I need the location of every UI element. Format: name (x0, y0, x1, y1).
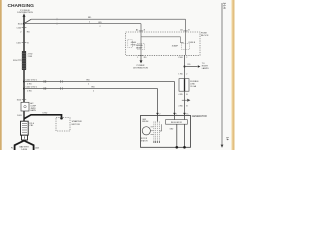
left binder edge (0, 0, 2, 150)
regulator left drop (161, 124, 163, 131)
starter motor (dashed) (56, 118, 70, 131)
svg-text:2: 2 (88, 84, 89, 86)
stub wires into regulator (174, 116, 176, 120)
wire C lower horizontal 1 (24, 81, 175, 83)
node branch to right (184, 66, 186, 68)
svg-text:C100: C100 (16, 42, 21, 44)
wire D lower horizontal 2 (24, 88, 158, 90)
splice tick S110 (22, 99, 26, 101)
fuse sub element left small (128, 40, 133, 48)
svg-text:14036: 14036 (21, 149, 28, 150)
svg-text:RD: RD (99, 22, 103, 24)
right binder edge (231, 0, 234, 150)
exit terminal left (139, 55, 143, 57)
svg-text:S100: S100 (18, 23, 24, 25)
svg-text:DISTRIBUTION: DISTRIBUTION (133, 68, 148, 70)
wire inside fuse block left (140, 32, 142, 55)
svg-text:2-1-0: 2-1-0 (222, 3, 226, 10)
svg-text:20 GA: 20 GA (190, 85, 196, 88)
svg-text:REGULATOR: REGULATOR (171, 121, 183, 124)
svg-text:2: 2 (93, 91, 94, 93)
wire battery cable branch to starter (24, 115, 62, 119)
node on wire D (23, 88, 25, 90)
svg-text:6 RD: 6 RD (43, 112, 48, 114)
arrow up to power distribution (23, 13, 26, 16)
svg-text:C200 1 RD 1: C200 1 RD 1 (26, 87, 38, 89)
svg-text:HARN: HARN (30, 109, 36, 112)
cable terminal (22, 135, 28, 140)
wire branch right arrow (185, 66, 198, 68)
wire fused feed down (184, 55, 186, 78)
regulator (166, 120, 188, 125)
svg-text:C100: C100 (16, 27, 21, 29)
wire below fusible link (184, 91, 186, 114)
svg-text:BLOCK: BLOCK (201, 35, 209, 37)
wire main battery feed vertical (23, 16, 25, 141)
svg-text:A2: A2 (136, 29, 138, 32)
splice tick (18, 59, 22, 61)
svg-text:2: 2 (159, 114, 160, 116)
svg-text:C100: C100 (178, 57, 183, 59)
svg-text:FUSE B: FUSE B (189, 42, 196, 44)
svg-text:RD: RD (87, 80, 91, 82)
wire D corner drop to generator (157, 89, 159, 115)
svg-text:2: 2 (186, 73, 187, 75)
connector ticks wire D (43, 87, 45, 90)
faint ticks on top wires (56, 18, 58, 20)
generator box (141, 116, 191, 148)
fusible link wrapped cable (22, 51, 26, 70)
fuse block (dashed box) (126, 32, 200, 55)
wire B corner drop (140, 24, 142, 32)
svg-text:S204: S204 (13, 60, 17, 62)
wire A top horizontal (31, 18, 186, 20)
svg-text:2: 2 (186, 57, 187, 59)
junction block (21, 102, 29, 111)
rotor circle (142, 127, 150, 135)
svg-text:RD: RD (88, 17, 92, 19)
svg-text:2: 2 (89, 21, 90, 23)
ground wire 1 (176, 124, 178, 147)
svg-text:RD: RD (27, 32, 31, 34)
svg-text:BRUSH: BRUSH (142, 121, 149, 123)
svg-text:2: 2 (100, 26, 101, 28)
wire B second horizontal (24, 23, 141, 25)
wire C corner drop to generator (174, 82, 176, 115)
svg-text:GENERATOR: GENERATOR (192, 115, 207, 118)
svg-text:STATOR: STATOR (141, 139, 148, 142)
svg-text:1 RD: 1 RD (178, 73, 183, 75)
svg-text:2 BK: 2 BK (28, 56, 33, 58)
svg-text:S110: S110 (17, 99, 21, 101)
svg-text:B+: B+ (186, 114, 188, 116)
connector C100 B (22, 42, 27, 44)
svg-text:30 AMP: 30 AMP (136, 46, 143, 49)
fuse B (182, 44, 190, 50)
svg-text:1403: 1403 (35, 147, 39, 149)
wire diagonal riser (24, 19, 31, 23)
svg-text:C200 2 RD 1: C200 2 RD 1 (26, 80, 38, 82)
connector ticks wire C (43, 80, 45, 83)
terminal A entry right (183, 30, 187, 32)
svg-text:MOTOR: MOTOR (72, 124, 81, 126)
entry arrows into generator (156, 113, 159, 116)
svg-text:A1: A1 (180, 29, 182, 32)
node S100 junction (23, 23, 25, 25)
terminal A entry left (139, 30, 143, 32)
positive battery cable wrap (21, 121, 29, 135)
internal bus wire (141, 36, 181, 38)
svg-text:LAMPS: LAMPS (202, 67, 209, 70)
node on wire C (23, 81, 25, 83)
stator links (151, 126, 154, 128)
svg-text:RD: RD (92, 87, 96, 89)
brush columns dashed (154, 122, 159, 144)
svg-text:1: 1 (176, 114, 177, 116)
fuse A (138, 44, 145, 50)
svg-text:1 RD: 1 RD (27, 91, 32, 93)
node starter feed (60, 117, 63, 120)
connector C100 on main wire (22, 27, 27, 29)
svg-text:4 RD: 4 RD (178, 94, 183, 96)
svg-text:14: 14 (226, 137, 230, 141)
paper background (0, 0, 235, 150)
ground wire 2 (184, 124, 186, 147)
wire inside fuse block right (185, 32, 187, 55)
wire A corner drop (185, 19, 187, 32)
svg-text:1: 1 (137, 57, 138, 59)
svg-text:DISTRIBUTION: DISTRIBUTION (17, 12, 33, 14)
svg-text:30 AMP: 30 AMP (172, 45, 179, 48)
svg-text:4 RD: 4 RD (178, 106, 183, 108)
svg-text:STARTER: STARTER (72, 120, 82, 123)
reference line right (221, 3, 223, 145)
battery (15, 141, 34, 150)
fusible link box (179, 79, 189, 92)
arrow down exit to power distribution (140, 55, 142, 60)
svg-text:P1: P1 (11, 147, 13, 149)
svg-text:CHARGING: CHARGING (8, 3, 35, 9)
connector flag C2 (182, 99, 187, 101)
svg-text:2 RD: 2 RD (27, 84, 32, 86)
